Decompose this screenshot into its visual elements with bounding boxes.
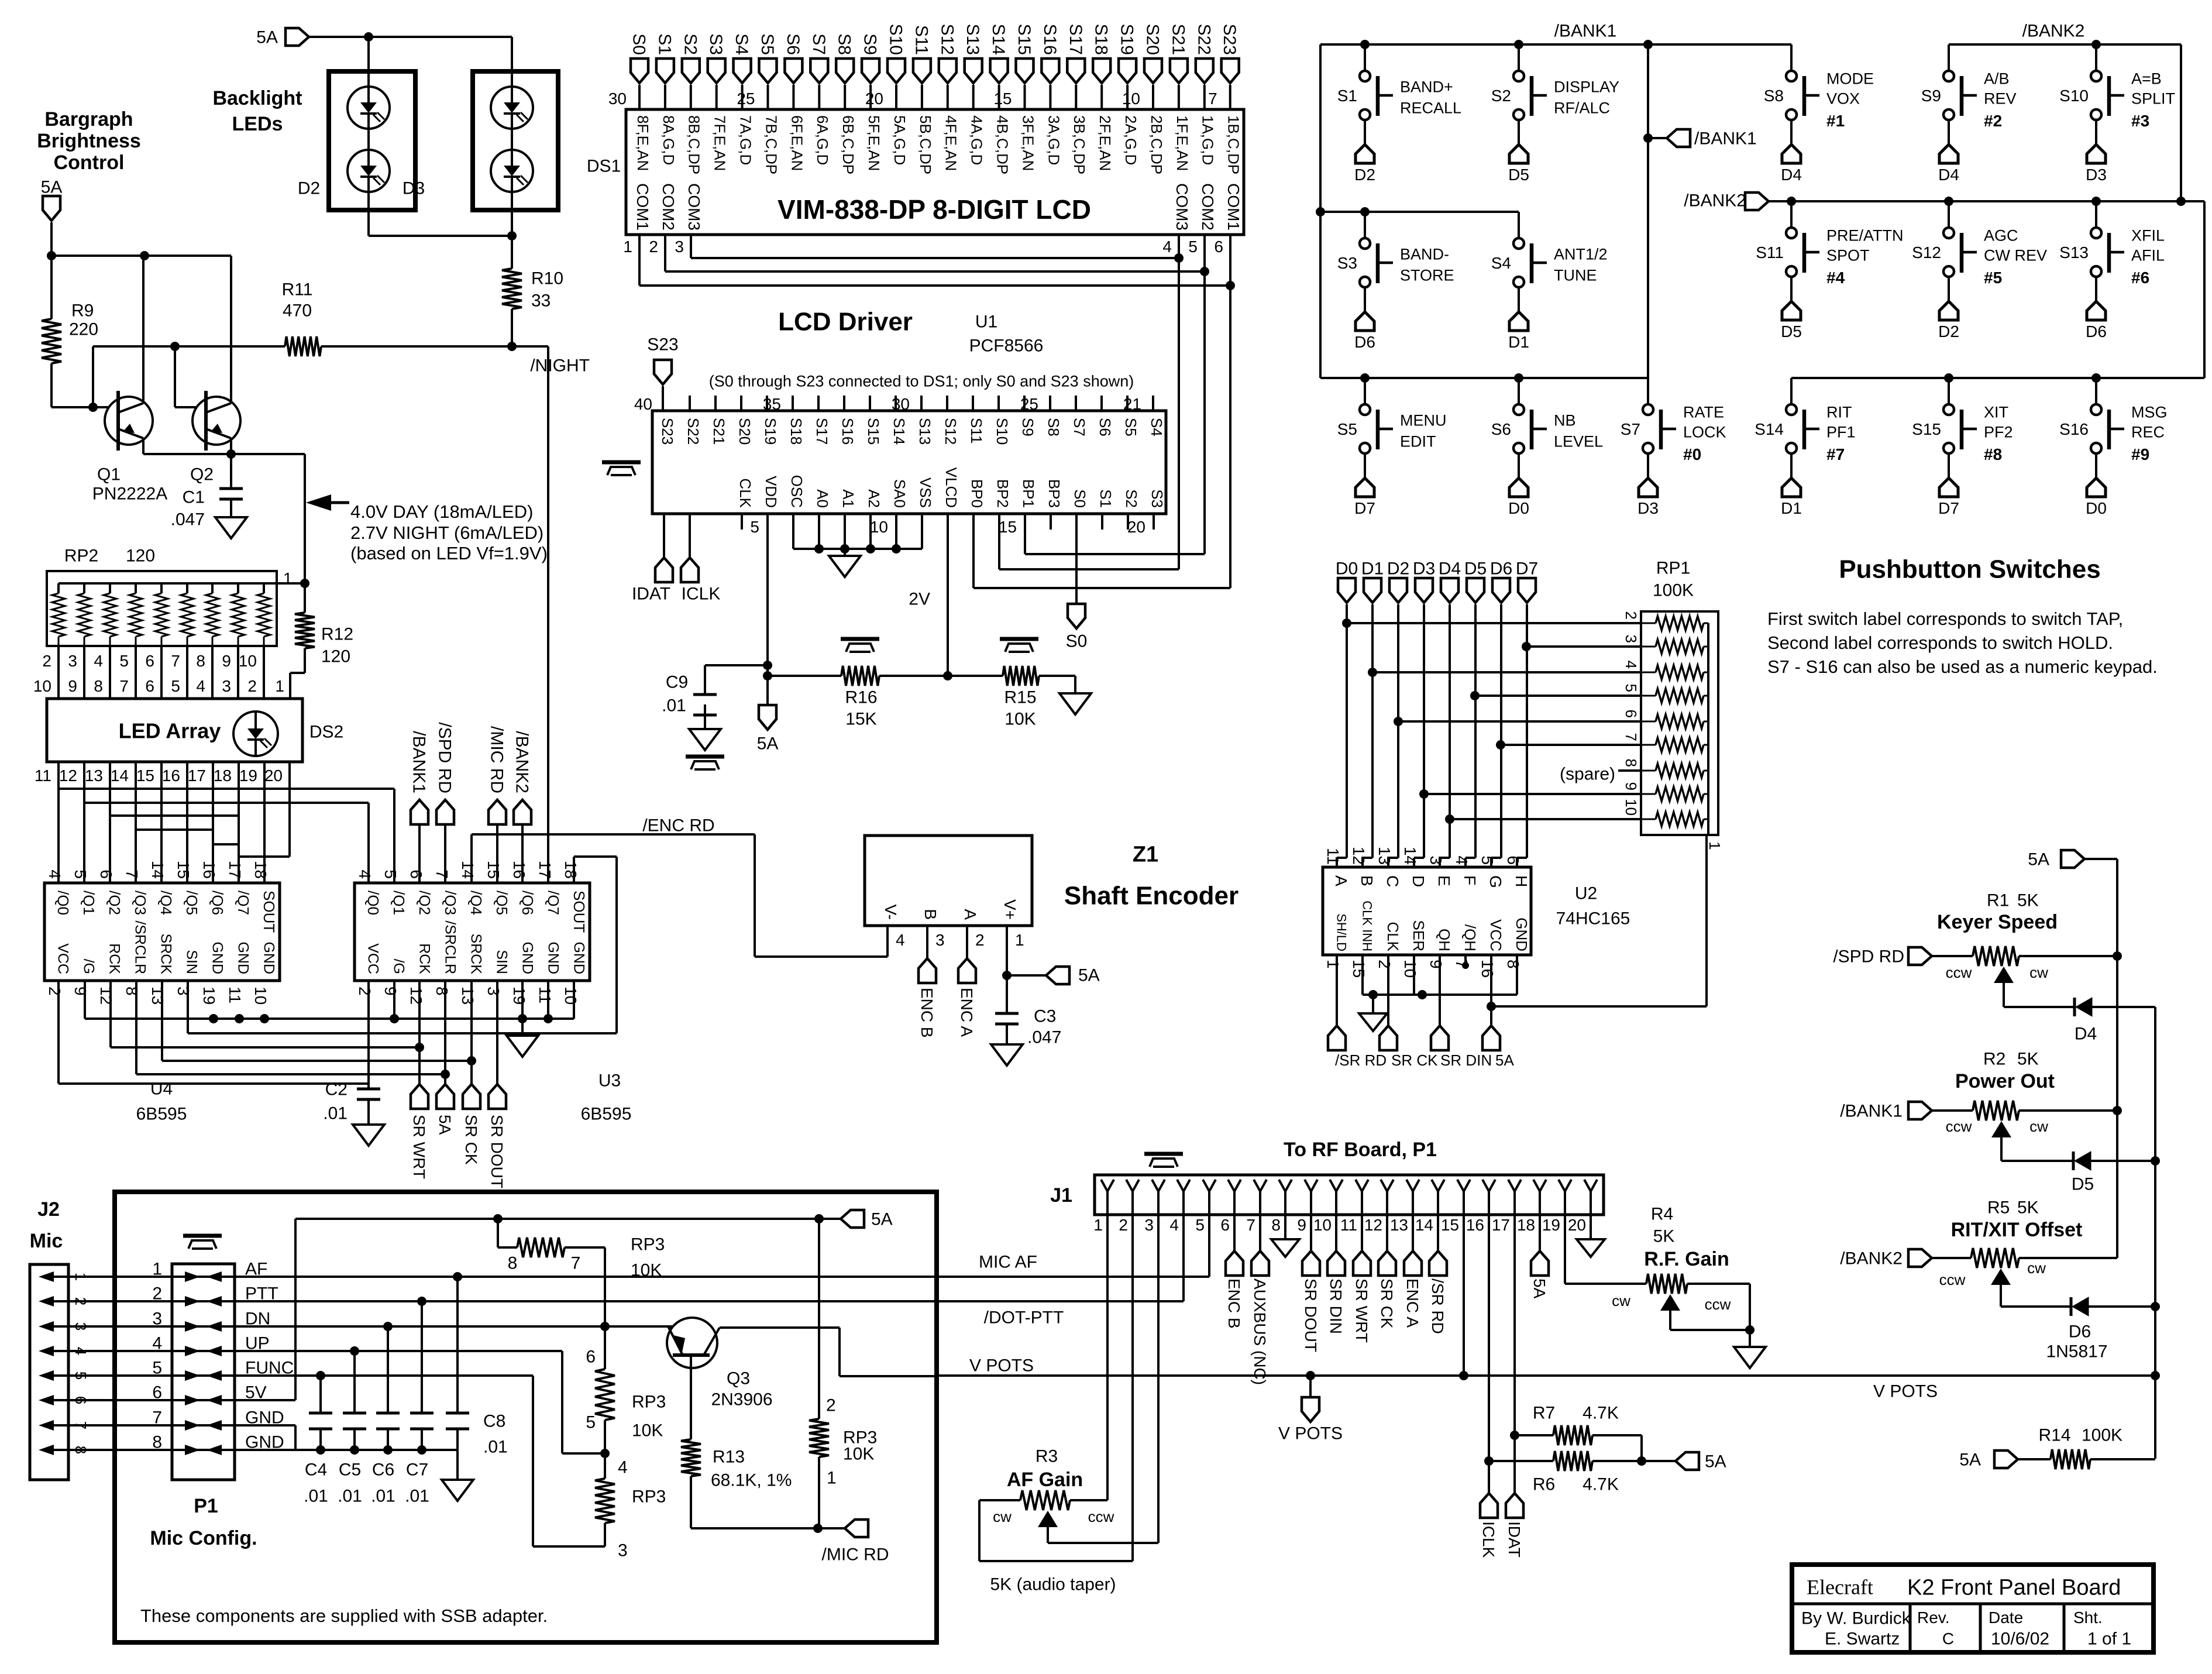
svg-text:6: 6 xyxy=(586,1348,596,1367)
svg-text:2: 2 xyxy=(975,931,985,949)
svg-text:S12: S12 xyxy=(937,24,957,55)
svg-text:BP0: BP0 xyxy=(968,479,986,508)
svg-text:2: 2 xyxy=(1622,611,1640,620)
svg-text:ccw: ccw xyxy=(1088,1508,1114,1525)
svg-text:VCC: VCC xyxy=(1487,919,1505,951)
svg-text:14: 14 xyxy=(459,861,477,879)
svg-text:S7: S7 xyxy=(1071,418,1088,436)
svg-text:S16: S16 xyxy=(839,418,856,445)
svg-text:/SPD RD: /SPD RD xyxy=(435,722,455,793)
svg-text:D4: D4 xyxy=(1439,559,1461,579)
svg-text:SR WRT: SR WRT xyxy=(1353,1278,1371,1343)
svg-text:7: 7 xyxy=(171,652,180,670)
svg-text:120: 120 xyxy=(321,647,350,666)
svg-text:18: 18 xyxy=(562,861,580,879)
svg-text:74HC165: 74HC165 xyxy=(1556,909,1630,929)
svg-text:/Q0: /Q0 xyxy=(364,891,382,915)
svg-text:15: 15 xyxy=(1350,960,1368,978)
svg-text:12: 12 xyxy=(407,986,425,1005)
svg-text:Date: Date xyxy=(1989,1608,2023,1627)
svg-text:D3: D3 xyxy=(2086,166,2107,184)
svg-text:2A,G,D: 2A,G,D xyxy=(1122,115,1140,165)
svg-text:(spare): (spare) xyxy=(1560,765,1615,784)
svg-text:#0: #0 xyxy=(1683,445,1701,463)
svg-text:E. Swartz: E. Swartz xyxy=(1825,1630,1900,1649)
svg-text:SPOT: SPOT xyxy=(1826,246,1870,264)
svg-text:S13: S13 xyxy=(2059,243,2089,262)
svg-text:6: 6 xyxy=(145,677,154,695)
svg-text:7: 7 xyxy=(152,1408,162,1428)
svg-text:15K: 15K xyxy=(845,710,876,729)
svg-text:C7: C7 xyxy=(406,1460,428,1480)
svg-text:BAND-: BAND- xyxy=(1400,245,1449,263)
svg-text:/BANK2: /BANK2 xyxy=(1684,191,1746,211)
svg-text:2: 2 xyxy=(152,1284,162,1304)
svg-text:SH/LD: SH/LD xyxy=(1334,913,1348,951)
svg-text:Keyer Speed: Keyer Speed xyxy=(1937,911,2058,933)
svg-text:/Q5: /Q5 xyxy=(183,891,201,915)
svg-text:15: 15 xyxy=(484,861,503,879)
svg-text:S9: S9 xyxy=(1921,87,1941,105)
svg-text:S8: S8 xyxy=(1764,87,1784,105)
svg-text:6: 6 xyxy=(407,869,425,879)
svg-text:1: 1 xyxy=(623,238,632,256)
svg-text:4: 4 xyxy=(356,869,374,879)
svg-text:S1: S1 xyxy=(655,33,674,55)
svg-text:D2: D2 xyxy=(1387,559,1409,579)
svg-text:5K: 5K xyxy=(2017,1198,2039,1218)
svg-text:7: 7 xyxy=(72,1421,90,1429)
svg-text:.01: .01 xyxy=(323,1104,348,1123)
svg-text:P1: P1 xyxy=(194,1495,218,1517)
svg-text:15: 15 xyxy=(999,518,1017,536)
svg-text:D4: D4 xyxy=(2075,1025,2097,1044)
svg-text:U4: U4 xyxy=(150,1080,173,1099)
svg-text:8: 8 xyxy=(433,986,451,996)
svg-text:GND: GND xyxy=(570,941,587,974)
svg-text:ICLK: ICLK xyxy=(682,585,721,604)
svg-text:R11: R11 xyxy=(282,280,313,300)
svg-text:20: 20 xyxy=(1568,1216,1586,1234)
svg-text:5: 5 xyxy=(71,869,90,879)
svg-text:1: 1 xyxy=(275,677,284,695)
svg-text:.01: .01 xyxy=(662,696,686,716)
svg-text:LOCK: LOCK xyxy=(1683,423,1726,441)
svg-text:SOUT: SOUT xyxy=(570,891,588,933)
svg-text:8: 8 xyxy=(508,1254,518,1273)
svg-text:RCK: RCK xyxy=(106,943,122,974)
svg-text:A2: A2 xyxy=(865,489,883,508)
svg-text:R3: R3 xyxy=(1036,1447,1058,1466)
svg-text:14: 14 xyxy=(1415,1216,1433,1234)
svg-text:5A: 5A xyxy=(1495,1051,1514,1069)
svg-text:PCF8566: PCF8566 xyxy=(969,336,1044,356)
svg-text:BP1: BP1 xyxy=(1020,479,1037,508)
svg-text:SPLIT: SPLIT xyxy=(2131,90,2175,107)
svg-text:.047: .047 xyxy=(1027,1028,1061,1047)
svg-text:R14: R14 xyxy=(2038,1426,2070,1445)
svg-text:S3: S3 xyxy=(1337,254,1357,272)
svg-text:13: 13 xyxy=(85,766,103,785)
svg-text:16: 16 xyxy=(510,861,528,879)
svg-text:5K: 5K xyxy=(1653,1227,1675,1246)
svg-text:10K: 10K xyxy=(632,1421,663,1441)
svg-text:C6: C6 xyxy=(372,1460,394,1480)
svg-text:C1: C1 xyxy=(183,488,205,507)
svg-text:Backlight: Backlight xyxy=(212,87,302,109)
svg-text:S4: S4 xyxy=(1148,418,1165,436)
svg-text:XIT: XIT xyxy=(1984,403,2008,421)
svg-text:A0: A0 xyxy=(814,489,831,508)
svg-text:1: 1 xyxy=(827,1469,837,1488)
svg-text:15: 15 xyxy=(993,90,1012,108)
svg-text:S9: S9 xyxy=(1019,418,1037,436)
svg-text:Brightness: Brightness xyxy=(37,130,141,152)
svg-text:220: 220 xyxy=(69,320,98,339)
svg-text:/ENC RD: /ENC RD xyxy=(642,816,714,836)
svg-text:15: 15 xyxy=(1441,1216,1459,1234)
svg-text:RP3: RP3 xyxy=(632,1393,666,1412)
svg-text:S14: S14 xyxy=(1755,420,1784,438)
svg-text:17: 17 xyxy=(536,861,554,879)
svg-text:D2: D2 xyxy=(298,179,320,198)
svg-text:LEDs: LEDs xyxy=(232,113,283,135)
svg-text:D1: D1 xyxy=(1508,333,1529,351)
svg-text:100K: 100K xyxy=(2082,1426,2122,1445)
svg-text:SOUT: SOUT xyxy=(260,891,278,933)
svg-text:/BANK1: /BANK1 xyxy=(1554,22,1617,41)
svg-text:S22: S22 xyxy=(684,418,702,445)
svg-text:DISPLAY: DISPLAY xyxy=(1554,78,1619,95)
svg-text:R10: R10 xyxy=(531,269,563,288)
svg-text:ccw: ccw xyxy=(1946,1118,1972,1135)
svg-text:R7: R7 xyxy=(1533,1404,1555,1423)
svg-text:9: 9 xyxy=(1622,782,1640,790)
svg-text:(based on LED Vf=1.9V): (based on LED Vf=1.9V) xyxy=(350,543,548,563)
svg-text:5: 5 xyxy=(171,677,180,695)
svg-text:14: 14 xyxy=(1401,847,1419,865)
svg-text:U1: U1 xyxy=(975,312,997,332)
svg-text:VCC: VCC xyxy=(54,943,71,974)
svg-text:5: 5 xyxy=(750,518,759,536)
svg-text:D2: D2 xyxy=(1354,166,1375,184)
svg-text:H: H xyxy=(1512,875,1530,887)
svg-text:R2: R2 xyxy=(1983,1050,2005,1069)
svg-text:9: 9 xyxy=(68,677,77,695)
svg-text:SR DOUT: SR DOUT xyxy=(488,1115,506,1188)
svg-text:7F,E,AN: 7F,E,AN xyxy=(711,115,729,171)
svg-text:COM1: COM1 xyxy=(634,183,652,231)
svg-text:/BANK1: /BANK1 xyxy=(1694,129,1757,149)
svg-text:/Q1: /Q1 xyxy=(390,891,408,915)
svg-text:C5: C5 xyxy=(339,1460,361,1480)
svg-text:COM1: COM1 xyxy=(1224,183,1243,231)
svg-text:S13: S13 xyxy=(963,24,982,55)
svg-text:5A: 5A xyxy=(1959,1450,1981,1470)
svg-text:15: 15 xyxy=(136,766,154,785)
svg-text:2: 2 xyxy=(1375,960,1394,969)
svg-text:LEVEL: LEVEL xyxy=(1554,432,1603,450)
svg-text:S15: S15 xyxy=(865,418,882,445)
svg-text:D1: D1 xyxy=(1781,499,1802,517)
svg-text:D6: D6 xyxy=(1490,559,1512,579)
svg-text:AF Gain: AF Gain xyxy=(1007,1469,1083,1491)
svg-text:SR CK: SR CK xyxy=(1391,1051,1438,1069)
svg-text:D2: D2 xyxy=(1938,322,1959,341)
svg-text:Q3: Q3 xyxy=(727,1369,750,1388)
svg-text:S2: S2 xyxy=(1491,87,1511,105)
svg-text:PF1: PF1 xyxy=(1826,423,1856,441)
svg-text:D3: D3 xyxy=(403,179,425,198)
svg-text:10: 10 xyxy=(1622,799,1640,816)
svg-text:AFIL: AFIL xyxy=(2131,246,2165,264)
svg-text:6: 6 xyxy=(1622,710,1640,718)
svg-text:SR DOUT: SR DOUT xyxy=(1302,1278,1320,1352)
svg-text:35: 35 xyxy=(763,395,781,413)
svg-text:7: 7 xyxy=(1622,733,1640,741)
svg-text:S6: S6 xyxy=(1096,418,1114,436)
svg-text:1: 1 xyxy=(1706,841,1723,850)
svg-text:/Q2: /Q2 xyxy=(416,891,434,915)
svg-text:R9: R9 xyxy=(71,301,94,321)
svg-text:U3: U3 xyxy=(598,1071,621,1091)
svg-text:D5: D5 xyxy=(1781,322,1802,341)
svg-text:R15: R15 xyxy=(1004,688,1036,707)
svg-text:/BANK1: /BANK1 xyxy=(410,731,429,793)
svg-text:EDIT: EDIT xyxy=(1400,432,1436,450)
svg-text:1B,C,DP: 1B,C,DP xyxy=(1225,115,1243,174)
svg-text:/Q1: /Q1 xyxy=(80,891,98,915)
svg-text:10: 10 xyxy=(33,677,51,695)
svg-text:ccw: ccw xyxy=(1705,1295,1731,1313)
svg-text:D0: D0 xyxy=(2086,499,2107,517)
svg-text:3F,E,AN: 3F,E,AN xyxy=(1019,115,1037,171)
svg-text:13: 13 xyxy=(1375,847,1394,865)
svg-text:S15: S15 xyxy=(1912,420,1941,438)
svg-text:XFIL: XFIL xyxy=(2131,226,2165,244)
svg-text:S21: S21 xyxy=(1168,24,1188,55)
svg-text:S10: S10 xyxy=(993,418,1011,445)
svg-text:S5: S5 xyxy=(1122,418,1140,436)
svg-text:6: 6 xyxy=(1214,238,1223,256)
svg-text:8: 8 xyxy=(72,1446,90,1454)
svg-text:5A: 5A xyxy=(1530,1278,1549,1299)
svg-text:R13: R13 xyxy=(713,1448,745,1467)
svg-text:9: 9 xyxy=(71,986,90,996)
svg-text:RIT/XIT Offset: RIT/XIT Offset xyxy=(1951,1219,2083,1241)
svg-text:cw: cw xyxy=(1612,1292,1630,1309)
svg-text:/Q4: /Q4 xyxy=(157,891,175,915)
svg-text:11: 11 xyxy=(1340,1216,1357,1234)
svg-text:14: 14 xyxy=(149,861,167,879)
svg-text:10K: 10K xyxy=(631,1261,662,1280)
svg-text:6: 6 xyxy=(152,1383,162,1403)
svg-text:3: 3 xyxy=(174,986,192,996)
svg-text:VDD: VDD xyxy=(762,476,780,508)
svg-text:6: 6 xyxy=(97,869,115,879)
svg-text:13: 13 xyxy=(149,986,167,1005)
svg-text:D3: D3 xyxy=(1638,499,1659,517)
svg-text:/SR RD: /SR RD xyxy=(1335,1051,1387,1069)
svg-text:11: 11 xyxy=(536,986,554,1003)
svg-text:STORE: STORE xyxy=(1400,266,1454,284)
svg-text:5A: 5A xyxy=(41,178,63,197)
svg-text:5K (audio taper): 5K (audio taper) xyxy=(990,1575,1116,1594)
svg-text:B: B xyxy=(921,909,940,920)
svg-text:D0: D0 xyxy=(1336,559,1358,579)
svg-text:C9: C9 xyxy=(666,673,688,692)
svg-text:RF/ALC: RF/ALC xyxy=(1554,99,1610,116)
svg-text:/Q7: /Q7 xyxy=(235,891,252,915)
svg-text:1N5817: 1N5817 xyxy=(2046,1342,2107,1362)
svg-text:16: 16 xyxy=(200,861,218,879)
svg-text:S16: S16 xyxy=(2059,420,2089,438)
svg-text:RP2: RP2 xyxy=(64,546,98,566)
svg-text:#5: #5 xyxy=(1984,269,2002,287)
svg-text:/Q6: /Q6 xyxy=(519,891,536,915)
svg-text:BAND+: BAND+ xyxy=(1400,78,1453,95)
svg-text:9: 9 xyxy=(222,652,231,670)
svg-text:SR DIN: SR DIN xyxy=(1440,1051,1492,1069)
svg-text:S6: S6 xyxy=(1491,420,1511,438)
svg-text:U2: U2 xyxy=(1575,884,1597,903)
svg-text:14: 14 xyxy=(111,766,129,785)
svg-text:ENC B: ENC B xyxy=(918,988,936,1038)
svg-text:4F,E,AN: 4F,E,AN xyxy=(942,115,960,171)
svg-text:.01: .01 xyxy=(405,1487,429,1506)
svg-text:25: 25 xyxy=(737,90,755,108)
svg-text:/BANK2: /BANK2 xyxy=(1840,1249,1903,1269)
svg-text:5: 5 xyxy=(72,1371,90,1380)
svg-text:2B,C,DP: 2B,C,DP xyxy=(1148,115,1165,174)
svg-text:REC: REC xyxy=(2131,423,2165,441)
svg-text:S1: S1 xyxy=(1337,87,1357,105)
svg-text:J1: J1 xyxy=(1050,1184,1072,1206)
svg-text:GND: GND xyxy=(260,941,277,974)
svg-text:9: 9 xyxy=(1297,1216,1306,1234)
svg-text:8: 8 xyxy=(1271,1216,1281,1234)
svg-text:/Q0: /Q0 xyxy=(54,891,72,915)
svg-text:R12: R12 xyxy=(321,625,353,644)
svg-text:MENU: MENU xyxy=(1400,411,1447,429)
svg-text:20: 20 xyxy=(264,766,283,785)
svg-text:These components are supplied: These components are supplied with SSB a… xyxy=(140,1606,548,1626)
svg-text:1: 1 xyxy=(1015,931,1024,949)
svg-text:OSC: OSC xyxy=(788,475,806,508)
svg-text:D: D xyxy=(1409,875,1427,887)
svg-text:SIN: SIN xyxy=(183,950,199,974)
svg-text:VLCD: VLCD xyxy=(942,468,960,508)
svg-text:MSG: MSG xyxy=(2131,403,2168,421)
svg-text:S12: S12 xyxy=(1912,243,1941,262)
svg-text:C8: C8 xyxy=(483,1412,505,1431)
svg-text:8B,C,DP: 8B,C,DP xyxy=(686,115,703,174)
svg-text:16: 16 xyxy=(162,766,180,785)
svg-text:6B595: 6B595 xyxy=(581,1105,632,1124)
svg-text:7B,C,DP: 7B,C,DP xyxy=(762,115,780,174)
svg-text:S3: S3 xyxy=(1148,489,1166,508)
svg-text:BP2: BP2 xyxy=(994,479,1012,508)
svg-text:F: F xyxy=(1461,875,1479,885)
svg-text:6F,E,AN: 6F,E,AN xyxy=(788,115,806,171)
svg-text:#6: #6 xyxy=(2131,269,2149,287)
svg-text:2F,E,AN: 2F,E,AN xyxy=(1096,115,1114,171)
svg-text:CLK: CLK xyxy=(1384,922,1402,951)
svg-text:30: 30 xyxy=(892,395,910,413)
svg-text:To RF Board, P1: To RF Board, P1 xyxy=(1284,1139,1437,1161)
svg-text:LCD Driver: LCD Driver xyxy=(778,307,913,336)
svg-text:V POTS: V POTS xyxy=(1278,1424,1343,1443)
svg-text:Z1: Z1 xyxy=(1133,842,1158,867)
svg-text:COM3: COM3 xyxy=(685,183,703,231)
svg-text:3: 3 xyxy=(72,1322,90,1331)
svg-text:3: 3 xyxy=(618,1541,628,1560)
svg-text:6: 6 xyxy=(1220,1216,1230,1234)
svg-text:6B,C,DP: 6B,C,DP xyxy=(840,115,857,174)
svg-text:GND: GND xyxy=(209,941,225,974)
svg-text:4: 4 xyxy=(152,1334,162,1353)
svg-text:PRE/ATTN: PRE/ATTN xyxy=(1826,226,1904,244)
svg-text:SR CK: SR CK xyxy=(462,1115,480,1165)
svg-text:/Q5: /Q5 xyxy=(493,891,511,915)
svg-text:IDAT: IDAT xyxy=(632,585,670,604)
svg-text:#2: #2 xyxy=(1984,112,2002,130)
svg-text:10: 10 xyxy=(1401,960,1419,978)
svg-text:S20: S20 xyxy=(1143,24,1162,55)
svg-text:First switch label corresponds: First switch label corresponds to switch… xyxy=(1767,609,2123,629)
svg-text:470: 470 xyxy=(283,301,312,321)
svg-text:12: 12 xyxy=(59,766,77,785)
svg-text:2: 2 xyxy=(826,1396,836,1415)
svg-text:#8: #8 xyxy=(1984,445,2002,463)
svg-text:ENC B: ENC B xyxy=(1225,1278,1243,1329)
svg-text:RP1: RP1 xyxy=(1656,559,1690,578)
svg-text:3: 3 xyxy=(1622,635,1640,643)
svg-text:A=B: A=B xyxy=(2131,70,2162,87)
svg-text:/Q4: /Q4 xyxy=(467,891,485,915)
svg-text:D1: D1 xyxy=(1361,559,1384,579)
svg-text:1 of 1: 1 of 1 xyxy=(2087,1630,2131,1649)
svg-text:RATE: RATE xyxy=(1683,403,1724,421)
svg-text:2: 2 xyxy=(72,1297,90,1305)
svg-text:/Q7: /Q7 xyxy=(545,891,562,915)
svg-text:7A,G,D: 7A,G,D xyxy=(737,115,755,165)
svg-text:DS1: DS1 xyxy=(587,157,621,176)
svg-text:cw: cw xyxy=(2029,1118,2048,1135)
svg-text:PF2: PF2 xyxy=(1984,423,2013,441)
svg-text:5A: 5A xyxy=(2028,850,2049,869)
svg-text:2V: 2V xyxy=(909,590,930,609)
svg-text:5K: 5K xyxy=(2017,1050,2039,1069)
svg-text:S8: S8 xyxy=(835,33,854,55)
svg-text:S3: S3 xyxy=(706,33,725,55)
svg-text:PN2222A: PN2222A xyxy=(92,484,167,504)
svg-text:ccw: ccw xyxy=(1946,964,1972,981)
svg-text:17: 17 xyxy=(1492,1216,1510,1234)
svg-text:Q1: Q1 xyxy=(97,465,121,484)
svg-text:REV: REV xyxy=(1984,90,2017,107)
svg-text:4: 4 xyxy=(618,1458,628,1477)
svg-text:AUXBUS (NC): AUXBUS (NC) xyxy=(1251,1278,1269,1385)
svg-text:5: 5 xyxy=(1188,238,1198,256)
svg-text:2: 2 xyxy=(46,986,64,996)
svg-text:D4: D4 xyxy=(1938,166,1959,184)
svg-text:GND: GND xyxy=(235,941,251,974)
svg-text:6A,G,D: 6A,G,D xyxy=(814,115,831,165)
svg-text:S23: S23 xyxy=(647,335,678,355)
svg-text:#9: #9 xyxy=(2131,445,2149,463)
svg-text:S19: S19 xyxy=(1117,24,1137,55)
